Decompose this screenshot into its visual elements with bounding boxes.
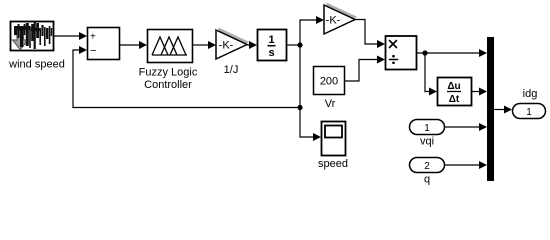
svg-text:Controller: Controller bbox=[144, 79, 192, 91]
wire node C to derivative bbox=[425, 53, 430, 92]
wire fuzzy to gain bbox=[193, 41, 216, 49]
svg-text:200: 200 bbox=[320, 76, 338, 88]
wire derivative to mux bbox=[472, 91, 480, 93]
constant 200 bbox=[314, 67, 345, 95]
source block wind speed bbox=[11, 22, 54, 51]
derivative block du/dt bbox=[438, 78, 472, 106]
gray down arrow bbox=[13, 31, 29, 50]
wire node B to scope bbox=[300, 108, 314, 138]
svg-text:idg: idg bbox=[523, 88, 538, 100]
noisy waveform bbox=[14, 22, 52, 49]
svg-text:−: − bbox=[90, 45, 96, 57]
svg-text:2: 2 bbox=[424, 161, 430, 172]
svg-text:wind speed: wind speed bbox=[8, 59, 65, 71]
svg-text:speed: speed bbox=[318, 158, 348, 170]
wire gain K2 to product x input bbox=[355, 20, 378, 45]
Fuzzy Logic Controller block bbox=[148, 30, 193, 63]
svg-text:1/J: 1/J bbox=[224, 64, 239, 76]
svg-text:-K-: -K- bbox=[326, 15, 341, 27]
wire node A down to node B bbox=[299, 45, 301, 108]
svg-text:1: 1 bbox=[526, 107, 532, 118]
wire integrator out to node A bbox=[287, 44, 300, 46]
svg-text:1: 1 bbox=[424, 123, 430, 134]
gain U2 1/J bbox=[216, 28, 250, 60]
gain U3 -K- top bbox=[324, 3, 358, 35]
inport 1 vqi bbox=[410, 120, 445, 135]
integrator 1/s bbox=[258, 30, 287, 61]
svg-text:1: 1 bbox=[268, 34, 274, 46]
svg-text:-K-: -K- bbox=[219, 40, 234, 52]
svg-text:Fuzzy Logic: Fuzzy Logic bbox=[139, 67, 198, 79]
node B junction bbox=[297, 105, 302, 110]
inport 2 q bbox=[410, 158, 445, 173]
product block bbox=[386, 36, 417, 70]
mux bbox=[487, 37, 494, 181]
svg-text:vqi: vqi bbox=[420, 136, 434, 148]
wire 200 to product divide input bbox=[345, 60, 378, 82]
wire ws to sum bbox=[54, 32, 87, 40]
feedback wire node B to sum minus input bbox=[73, 50, 300, 108]
svg-text:Δt: Δt bbox=[449, 94, 460, 105]
wire product to mux bbox=[417, 52, 481, 54]
node A junction bbox=[297, 42, 302, 47]
scope speed bbox=[322, 122, 346, 156]
outport 1 idg bbox=[513, 104, 546, 119]
svg-text:Δu: Δu bbox=[447, 81, 460, 92]
wire sum to fuzzy bbox=[120, 41, 147, 49]
wire q to mux bbox=[445, 164, 480, 166]
node C junction bbox=[422, 50, 427, 55]
svg-text:q: q bbox=[424, 174, 430, 186]
wire gain to integrator bbox=[247, 41, 257, 49]
wire mux to outport bbox=[494, 109, 505, 111]
wire node A up to gain K2 bbox=[300, 20, 317, 45]
wire vqi to mux bbox=[445, 126, 480, 128]
sum block S1 bbox=[88, 28, 120, 60]
svg-text:s: s bbox=[268, 47, 274, 59]
svg-text:+: + bbox=[90, 32, 96, 43]
svg-text:Vr: Vr bbox=[325, 98, 336, 110]
